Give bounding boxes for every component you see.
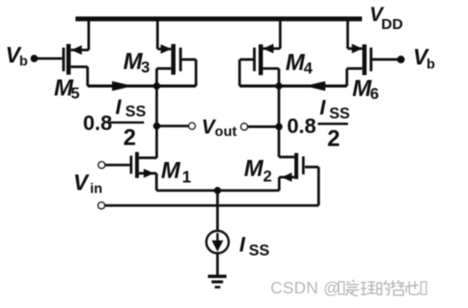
svg-text:M: M bbox=[244, 155, 264, 181]
svg-text:SS: SS bbox=[249, 242, 270, 259]
svg-text:V: V bbox=[73, 170, 90, 195]
svg-text:2: 2 bbox=[123, 124, 136, 150]
svg-text:out: out bbox=[215, 123, 237, 139]
svg-text:SS: SS bbox=[125, 104, 146, 121]
svg-text:in: in bbox=[90, 180, 102, 196]
svg-text:3: 3 bbox=[141, 60, 150, 77]
svg-text:0.8: 0.8 bbox=[287, 115, 317, 138]
svg-text:1: 1 bbox=[182, 168, 191, 186]
svg-text:6: 6 bbox=[370, 86, 379, 103]
svg-text:b: b bbox=[427, 55, 436, 71]
svg-text:DD: DD bbox=[381, 16, 403, 33]
svg-text:2: 2 bbox=[327, 125, 340, 151]
svg-text:b: b bbox=[19, 52, 28, 68]
svg-text:2: 2 bbox=[263, 169, 272, 186]
svg-text:M: M bbox=[161, 157, 181, 183]
svg-text:0.8: 0.8 bbox=[83, 112, 113, 135]
svg-text:CSDN @: CSDN @ bbox=[271, 280, 341, 298]
svg-text:4: 4 bbox=[304, 61, 313, 78]
svg-text:M: M bbox=[286, 49, 306, 75]
svg-text:SS: SS bbox=[329, 105, 350, 122]
svg-text:5: 5 bbox=[71, 85, 80, 102]
